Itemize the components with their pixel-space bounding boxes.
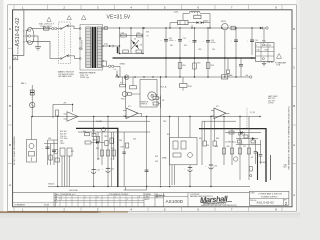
wire to CABLE label xyxy=(203,22,210,24)
wire from transformer mid tap to bridge xyxy=(114,45,120,47)
op-amp U1 xyxy=(126,108,138,119)
sheet outer frame xyxy=(8,5,297,211)
svg-text:TR21: TR21 xyxy=(104,136,108,138)
svg-text:C40: C40 xyxy=(133,139,136,141)
aux winding parts cluster xyxy=(160,96,162,109)
junction dots ground rail xyxy=(57,186,212,187)
svg-text:3: 3 xyxy=(139,197,140,199)
extra parts left cluster xyxy=(50,144,52,166)
wire +VE feed xyxy=(53,103,73,105)
speaker output wire pair xyxy=(257,152,259,180)
svg-text:R58: R58 xyxy=(215,146,218,148)
svg-text:240V 230V: 240V 230V xyxy=(82,39,84,50)
svg-text:C62: C62 xyxy=(121,32,124,34)
small parts right cluster xyxy=(222,148,225,154)
wire drops under mid rail xyxy=(122,77,124,84)
node VE output circle xyxy=(266,27,268,29)
wire to junction xyxy=(114,66,120,77)
svg-text:C40: C40 xyxy=(119,140,122,142)
pilot circle pair xyxy=(238,132,241,135)
electrolytic cap CE4 xyxy=(205,165,217,169)
small parts row xyxy=(100,150,103,156)
svg-text:C44: C44 xyxy=(97,170,100,172)
wire mid branch xyxy=(170,22,178,24)
svg-text:4700u: 4700u xyxy=(169,40,174,42)
drawn/checked cells xyxy=(154,193,156,207)
resistor chain x228 xyxy=(227,59,229,70)
wire into switch xyxy=(57,28,61,30)
junction dots low rail xyxy=(32,116,261,117)
thick ground bus xyxy=(113,57,256,59)
svg-text:FS1: FS1 xyxy=(265,45,268,47)
svg-text:TR3: TR3 xyxy=(163,121,166,123)
svg-text:SCRN: Vps: SCRN: Vps xyxy=(80,77,89,79)
extra vertical with resistor R49 xyxy=(111,132,113,187)
connector pair CN2 xyxy=(108,65,110,67)
earth wire down from CON1 xyxy=(31,36,38,47)
svg-text:CABLE: CABLE xyxy=(203,20,209,23)
relay box RL1 xyxy=(27,140,37,163)
cap chain x241 xyxy=(240,59,242,65)
rectifier box BR2 xyxy=(178,21,188,25)
svg-text:SPKR 8: SPKR 8 xyxy=(141,104,147,106)
svg-text:B: B xyxy=(9,104,11,108)
svg-text:C30: C30 xyxy=(48,138,51,140)
right title box xyxy=(249,191,289,205)
svg-text:DM BLK: DM BLK xyxy=(260,162,267,164)
svg-text:CHK'D: CHK'D xyxy=(145,196,151,198)
wire into relay xyxy=(31,117,33,140)
svg-text:C57: C57 xyxy=(243,146,246,148)
svg-text:GROUND: GROUND xyxy=(69,190,78,192)
svg-text:C55: C55 xyxy=(206,145,209,147)
svg-text:1N4007: 1N4007 xyxy=(92,139,98,141)
buffer triangle A1 xyxy=(67,112,78,121)
connector pair CN xyxy=(52,28,54,30)
transistor TR20 xyxy=(102,128,106,132)
cap C60 xyxy=(255,140,257,152)
svg-text:R60: R60 xyxy=(216,138,219,140)
smoothing cap chain C51 xyxy=(175,28,186,77)
warning triangle W2 xyxy=(47,17,51,21)
regulator output chain xyxy=(224,33,226,77)
title block top line xyxy=(13,192,250,194)
svg-text:COPYRIGHT: COPYRIGHT xyxy=(190,194,200,196)
wire switch to transformer live xyxy=(69,25,74,27)
svg-text:GND25: GND25 xyxy=(48,183,54,185)
label column cluster xyxy=(60,131,67,145)
cap row C64 C65 xyxy=(123,50,129,53)
svg-text:A: A xyxy=(9,183,11,187)
power bus left (thick) xyxy=(76,128,118,186)
svg-text:SEE TABLE 240V: SEE TABLE 240V xyxy=(58,75,72,78)
rectifier module cluster xyxy=(170,11,228,33)
diode row D1 xyxy=(85,141,91,144)
wire ground rail xyxy=(48,186,250,188)
connector CON1 mains inlet xyxy=(26,27,34,44)
electrolytic cap CE3 xyxy=(184,166,192,171)
svg-text:TR20: TR20 xyxy=(60,143,64,145)
svg-text:± TOLERANCE PLATED: ± TOLERANCE PLATED xyxy=(108,193,129,196)
smoothing cap chain C55 xyxy=(247,28,258,55)
smoothing cap chain C54 xyxy=(206,28,238,77)
wire top supply rail xyxy=(104,27,260,29)
resistor R33 xyxy=(56,110,59,116)
svg-text:D7: D7 xyxy=(241,144,243,146)
zone ruler ticks bottom xyxy=(14,207,282,211)
transformer T1 outline xyxy=(80,25,103,71)
component rect row xyxy=(60,148,65,156)
svg-text:AS10-62-02: AS10-62-02 xyxy=(15,18,21,47)
zone numbers bottom xyxy=(22,207,277,211)
wire to output connector xyxy=(263,27,266,29)
marker box A under label box xyxy=(13,55,18,60)
svg-text:VE=31.5V: VE=31.5V xyxy=(107,15,131,21)
cap C31 xyxy=(52,140,56,165)
svg-text:1: 1 xyxy=(85,197,86,199)
resistor R1 xyxy=(85,133,90,136)
op-amp output stub xyxy=(141,113,143,116)
svg-text:COMMENT: COMMENT xyxy=(14,205,26,207)
svg-text:IC2: IC2 xyxy=(216,106,219,108)
cap C63 xyxy=(137,34,143,37)
svg-text:C51: C51 xyxy=(183,38,186,40)
wire down to PSU table box xyxy=(263,29,265,43)
svg-text:R43: R43 xyxy=(92,130,95,132)
svg-text:2: 2 xyxy=(97,197,98,199)
diodes D5-D8 X arrangement xyxy=(131,40,139,49)
warning triangle W5 xyxy=(277,54,282,59)
footswitch jack FS2 xyxy=(122,92,127,97)
ground GND3 under box xyxy=(263,61,265,63)
svg-text:R50: R50 xyxy=(183,65,186,67)
svg-text:FS2: FS2 xyxy=(121,98,124,100)
svg-text:4K7: 4K7 xyxy=(97,159,100,161)
svg-text:RL1: RL1 xyxy=(71,151,74,153)
svg-text:REG1: REG1 xyxy=(221,21,226,23)
verticals right amp xyxy=(160,77,162,185)
warning triangle W3 xyxy=(67,16,71,20)
misc labels lower band xyxy=(48,112,256,160)
svg-text:B: B xyxy=(9,143,11,147)
transistor TR22 xyxy=(54,150,58,154)
wire switch to transformer neutral xyxy=(69,56,80,59)
comment cell xyxy=(13,202,54,204)
svg-text:POWER SUPPLY: POWER SUPPLY xyxy=(261,196,278,198)
svg-text:TITLE: TITLE xyxy=(250,193,254,195)
extra vertical chain R45 xyxy=(97,132,99,160)
ground GND1 xyxy=(35,46,41,48)
SW1 pole 2 xyxy=(60,58,62,60)
svg-text:L: L xyxy=(23,30,24,32)
thermistor TH1 on rail xyxy=(222,75,228,79)
resistor R30 xyxy=(30,90,34,92)
svg-text:R44: R44 xyxy=(83,131,86,133)
zone ruler ticks top xyxy=(14,5,282,10)
bridge rectifier sub-circuit BR1 xyxy=(114,27,144,54)
inductor L1 xyxy=(190,11,200,12)
svg-text:C1-RB1: C1-RB1 xyxy=(96,121,102,123)
component box left channel input xyxy=(170,138,197,165)
wire branch verticals xyxy=(182,14,184,21)
brown paper edge line bottom-left xyxy=(0,211,101,212)
verticals in left amp xyxy=(93,117,95,168)
secondary lower taps to connector xyxy=(104,60,107,62)
extra parts right cluster xyxy=(203,141,206,146)
diode D12 xyxy=(201,21,204,23)
diode D13 xyxy=(252,137,255,139)
svg-text:4700u: 4700u xyxy=(211,42,216,44)
revision table xyxy=(53,193,55,207)
wire live from CON1 to fuse xyxy=(31,28,44,30)
wire upper branch xyxy=(183,13,190,15)
svg-text:A: A xyxy=(14,56,16,60)
svg-text:C56: C56 xyxy=(214,165,217,167)
svg-text:R48: R48 xyxy=(121,147,124,149)
SW1 dashed link xyxy=(64,32,66,55)
svg-text:1N4007: 1N4007 xyxy=(236,129,242,131)
wire jack to remote box xyxy=(131,93,140,95)
svg-text:R46: R46 xyxy=(96,148,99,150)
svg-text:AS100D: AS100D xyxy=(166,199,184,204)
wire low rail xyxy=(31,116,261,118)
vertical joins to rail xyxy=(169,23,171,28)
T1 primary pins xyxy=(79,28,81,30)
svg-text:C54: C54 xyxy=(212,49,215,51)
svg-text:0.5: 0.5 xyxy=(114,69,116,71)
svg-text:SCH.No.: SCH.No. xyxy=(18,46,20,54)
diode D60 xyxy=(240,131,243,134)
smoothing cap chain C52 xyxy=(189,28,200,77)
dashed feed line xyxy=(246,108,248,129)
warning triangle W4 xyxy=(81,15,86,19)
cap C61 xyxy=(260,140,262,155)
svg-text:C: C xyxy=(9,65,11,69)
cap C30 xyxy=(42,140,50,165)
svg-text:C1-RB2 (ALL): C1-RB2 (ALL) xyxy=(225,141,236,144)
svg-text:1: 1 xyxy=(56,201,57,203)
rail end diode D9 xyxy=(260,27,263,30)
svg-text:C49: C49 xyxy=(155,161,158,163)
svg-text:POWER AMP & SWITCH: POWER AMP & SWITCH xyxy=(259,193,283,196)
svg-text:R51: R51 xyxy=(197,63,200,65)
wires bundle to ground rail xyxy=(61,156,63,187)
svg-text:D8: D8 xyxy=(162,100,164,102)
T1 core laminations (black bars) xyxy=(92,27,94,68)
sheet inner frame xyxy=(13,10,292,207)
CON1 pin arrows xyxy=(26,30,29,31)
junction dots mid rail xyxy=(118,76,237,77)
svg-text:C50: C50 xyxy=(169,38,172,40)
T1 secondary winding xyxy=(97,27,102,68)
svg-text:L005: L005 xyxy=(174,12,178,14)
svg-text:SHAD: SHAD xyxy=(162,157,167,160)
rectifier BR3 under rail xyxy=(182,77,184,84)
extra vertical chain C41 xyxy=(123,132,125,187)
secondary mid output with arrow xyxy=(104,45,109,47)
junction dots on top rail xyxy=(143,27,252,28)
output terminal marks xyxy=(249,167,252,172)
neutral wire from CON1 xyxy=(31,42,61,59)
power bus right (thick) xyxy=(199,129,266,182)
svg-text:D8: D8 xyxy=(140,45,142,47)
mains switch SW1 dashed enclosure xyxy=(59,22,71,64)
ground bus junction dots xyxy=(165,57,253,59)
electrolytic cap CE1 xyxy=(88,167,100,187)
svg-text:1: 1 xyxy=(115,197,116,199)
scan shadow bottom xyxy=(0,213,300,218)
cap C62 xyxy=(121,34,127,37)
fuse F1 xyxy=(44,27,50,30)
svg-text:1: 1 xyxy=(127,199,128,201)
svg-text:IC1: IC1 xyxy=(128,106,131,108)
resistor R60 xyxy=(229,131,234,134)
svg-text:GRND: GRND xyxy=(120,63,126,65)
svg-text:R55: R55 xyxy=(155,156,158,158)
resistor R62 on rail xyxy=(231,26,235,30)
svg-text:D: D xyxy=(293,27,295,31)
svg-text:Pv 7: Pv 7 xyxy=(120,83,123,85)
remote speaker box xyxy=(140,80,157,108)
op-amp U2 xyxy=(214,108,226,119)
svg-text:C63: C63 xyxy=(137,32,140,34)
wire fuse to connector pair xyxy=(49,28,52,30)
wire op-amp feed xyxy=(125,77,127,108)
svg-text:1: 1 xyxy=(61,199,62,201)
resistor row right amp xyxy=(238,140,242,143)
smoothing cap chain C50 xyxy=(161,28,186,77)
lamp LP1 xyxy=(30,102,35,107)
svg-text:C58 1N: C58 1N xyxy=(267,62,274,64)
svg-text:DENBIGH RD, BLETCHLEY, MILTON: DENBIGH RD, BLETCHLEY, MILTON KEYNES MK1… xyxy=(201,205,238,207)
svg-text:C55: C55 xyxy=(255,40,258,42)
wire branch to caps xyxy=(48,139,58,141)
svg-text:DO NOT SCALE THIS DRAWING: DO NOT SCALE THIS DRAWING xyxy=(13,136,16,165)
svg-text:R61: R61 xyxy=(199,138,202,140)
zone numbers top xyxy=(22,5,277,9)
svg-text:OUT_A: OUT_A xyxy=(160,86,167,89)
svg-text:B: B xyxy=(293,104,295,108)
svg-text:C45: C45 xyxy=(111,168,114,170)
svg-text:R59: R59 xyxy=(227,146,230,148)
diode D11 xyxy=(196,21,199,23)
svg-text:R52: R52 xyxy=(199,49,202,51)
svg-text:R53: R53 xyxy=(211,65,214,67)
wire left sense chain xyxy=(31,85,33,117)
SW1 pole 1 xyxy=(60,28,62,30)
bus stub right xyxy=(202,120,236,122)
junction dots bridge xyxy=(119,27,144,54)
diode block D10 xyxy=(194,15,201,18)
thermal fuse on top secondary output xyxy=(104,27,107,30)
extra parts mid-left cluster xyxy=(92,134,96,137)
short stub under rail xyxy=(125,187,127,191)
resistor R31 xyxy=(30,93,34,95)
svg-text:AS1.0-62-02: AS1.0-62-02 xyxy=(257,200,275,204)
svg-text:SC/E: SC/E xyxy=(44,205,50,207)
svg-text:ALL OTHERWISE ±0.2: ALL OTHERWISE ±0.2 xyxy=(56,193,75,196)
svg-text:D5: D5 xyxy=(134,38,136,40)
smoothing cap chain C53 xyxy=(203,28,216,77)
model cell xyxy=(187,193,189,207)
wire mid rail xyxy=(115,76,250,78)
cap C46 xyxy=(145,169,149,171)
svg-text:A: A xyxy=(293,193,295,197)
svg-text:C1_IN: C1_IN xyxy=(250,112,256,114)
svg-text:THIS DRAWING IS THE PROPERTY O: THIS DRAWING IS THE PROPERTY OF MARSHALL… xyxy=(287,105,290,170)
PSU option table box xyxy=(256,43,275,62)
svg-text:R54: R54 xyxy=(167,134,170,136)
down arrow symbol xyxy=(116,71,118,76)
svg-text:C53: C53 xyxy=(211,40,214,42)
svg-text:D: D xyxy=(9,27,11,31)
svg-text:MODEL No.: MODEL No. xyxy=(156,195,166,197)
T1 primary winding xyxy=(86,27,91,68)
svg-text:A: A xyxy=(293,143,295,147)
drawing number label box (left, rotated) xyxy=(13,10,24,56)
T1 secondary pins xyxy=(102,28,104,30)
zone ruler ticks right + letters xyxy=(292,48,296,163)
electrolytic cap CE2 xyxy=(102,166,114,187)
svg-text:L5 FS2: L5 FS2 xyxy=(268,103,274,105)
fuse blob on tap xyxy=(117,47,119,54)
fuse FS1 holder circle xyxy=(124,75,129,80)
svg-text:T1.6A L 250V: T1.6A L 250V xyxy=(40,25,53,28)
resistor R40 xyxy=(120,84,126,87)
svg-text:C: C xyxy=(293,65,295,69)
bus stub left xyxy=(78,120,150,122)
resistor R41 xyxy=(130,86,137,89)
zone ruler ticks left + letters xyxy=(8,48,13,163)
